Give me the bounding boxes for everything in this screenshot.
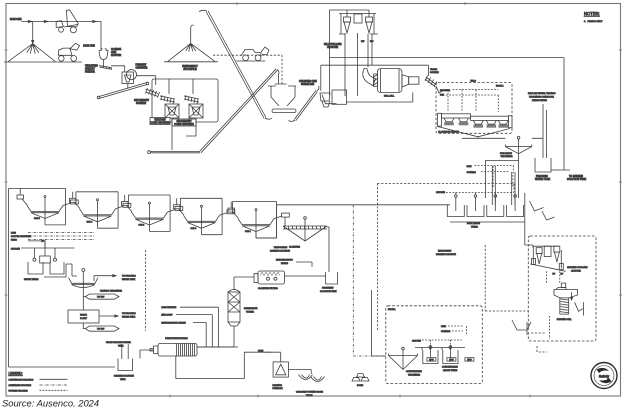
svg-text:FROTHER: FROTHER [440,90,451,92]
svg-text:SOLUTION TANK: SOLUTION TANK [567,178,586,181]
svg-text:TO TSF: TO TSF [97,328,105,330]
svg-text:OXYGEN: OXYGEN [11,248,20,250]
svg-text:CYANIDE: CYANIDE [441,330,451,333]
svg-text:CLUSTER: CLUSTER [327,46,338,49]
svg-text:TAILINGS THICKENER: TAILINGS THICKENER [100,290,122,293]
svg-text:Safety: Safety [599,375,609,379]
svg-text:THICKENER: THICKENER [408,375,421,377]
svg-text:TOWER: TOWER [246,312,254,314]
svg-text:BARREN SOLUTION: BARREN SOLUTION [436,253,456,256]
svg-text:DIATOMACEOUS EARTH: DIATOMACEOUS EARTH [161,321,186,324]
svg-text:1. PHASE 2 ONLY: 1. PHASE 2 ONLY [584,20,603,23]
svg-text:LIME: LIME [441,326,446,328]
svg-text:ROM ORE: ROM ORE [10,18,22,21]
svg-text:TABLE: TABLE [306,394,313,397]
svg-text:SCREEN: SCREEN [136,102,146,105]
svg-text:Source: Ausenco, 2024: Source: Ausenco, 2024 [2,398,99,407]
svg-text:TAILS: TAILS [470,80,476,83]
svg-text:PLANT: PLANT [80,317,87,320]
svg-text:HOPPER: HOPPER [111,54,121,57]
svg-text:BARRING: BARRING [273,384,283,387]
svg-text:PREGNANT: PREGNANT [322,287,334,290]
svg-text:THICKENER: THICKENER [501,156,514,158]
svg-text:OXYGEN: OXYGEN [412,341,421,343]
svg-text:BARREN SOLUTION: BARREN SOLUTION [270,250,290,253]
svg-text:FEEDER: FEEDER [85,71,95,74]
svg-text:REGRIND CYCLONE: REGRIND CYCLONE [567,267,588,269]
svg-text:HIGH GRADE: HIGH GRADE [274,246,288,249]
svg-text:FRESH WATER: FRESH WATER [532,99,547,102]
svg-text:WATER TANK: WATER TANK [535,178,551,181]
svg-text:LIME: LIME [467,166,472,168]
svg-text:CONCENTRATE: CONCENTRATE [442,366,458,369]
svg-text:EARTH: EARTH [281,262,289,265]
svg-text:FLOTATION CIRCUIT: FLOTATION CIRCUIT [438,130,459,133]
svg-text:DIATOMACEOUS: DIATOMACEOUS [276,259,293,262]
svg-text:FROM PROCESS WATER: FROM PROCESS WATER [106,341,131,344]
svg-text:CYANIDE: CYANIDE [467,171,477,174]
svg-text:BALL MILL: BALL MILL [384,95,395,98]
svg-text:ZINC DUST: ZINC DUST [161,315,173,317]
svg-text:FUTURE PROCESS: FUTURE PROCESS [9,391,29,393]
svg-text:BULK LEACH: BULK LEACH [467,222,480,225]
svg-text:OXYGEN: OXYGEN [436,192,445,194]
svg-text:TANK: TANK [118,345,124,348]
svg-text:PRECIPITATE FILTERS: PRECIPITATE FILTERS [165,337,188,340]
svg-text:BARREN SOLUTION: BARREN SOLUTION [114,375,134,378]
svg-text:TANK: TANK [120,378,126,381]
svg-text:PASTE: PASTE [80,314,87,317]
svg-text:CRUSHER: CRUSHER [136,67,148,70]
svg-text:PRE-LEACH: PRE-LEACH [500,152,512,155]
svg-text:FURNACE: FURNACE [273,387,284,390]
svg-text:NOTES:: NOTES: [584,11,600,16]
svg-text:CLARIFIER FILTERS: CLARIFIER FILTERS [258,287,278,290]
svg-text:TO PROCESS: TO PROCESS [122,276,136,278]
svg-text:CCD 5: CCD 5 [34,218,40,220]
svg-text:PAX: PAX [440,94,445,97]
svg-text:ALTERNATE PROCESS: ALTERNATE PROCESS [9,384,32,387]
svg-text:LEACH TANKS: LEACH TANKS [443,369,458,372]
svg-text:TRASH: TRASH [430,68,438,71]
svg-text:THICKENER OVERFLOW,: THICKENER OVERFLOW, [529,97,554,99]
svg-text:LEAD NITRATE: LEAD NITRATE [161,306,176,309]
svg-text:CLUSTER: CLUSTER [571,270,581,272]
svg-text:REGRIND MILL: REGRIND MILL [557,319,573,321]
svg-text:CCD 2: CCD 2 [191,228,197,230]
svg-text:CONE CRUSHER: CONE CRUSHER [174,123,194,126]
svg-text:MPU: MPU [429,360,434,362]
svg-text:TO PROCESS: TO PROCESS [122,313,136,315]
svg-text:LIME: LIME [11,233,16,235]
svg-text:CCD 1: CCD 1 [245,231,251,233]
svg-text:CLARIFIER: CLARIFIER [289,246,300,249]
svg-text:MPU: MPU [449,360,454,362]
svg-text:CASCADE POURING DORE: CASCADE POURING DORE [296,391,324,394]
svg-text:TANKS: TANKS [471,226,478,229]
svg-text:CONCENTRATE: CONCENTRATE [406,370,422,373]
svg-text:DEAERATION: DEAERATION [244,307,258,310]
svg-text:NOTE 1: NOTE 1 [496,85,504,87]
svg-text:STOCKPILE: STOCKPILE [183,68,197,71]
svg-text:CCD 3: CCD 3 [139,225,145,227]
svg-text:SCREEN: SCREEN [430,72,439,74]
svg-text:NOTE 1: NOTE 1 [388,309,396,311]
svg-text:CCD 4: CCD 4 [87,221,93,223]
svg-text:SURGE BIN: SURGE BIN [301,83,314,86]
svg-text:FLUX: FLUX [258,351,264,353]
svg-text:LEGEND:: LEGEND: [9,372,23,376]
svg-text:CONTINUOUS PROCESS: CONTINUOUS PROCESS [9,380,34,382]
svg-text:SOLUTION TANK: SOLUTION TANK [320,290,337,293]
svg-text:CONE CRUSHER: CONE CRUSHER [150,122,170,125]
svg-text:MPU: MPU [467,360,472,362]
svg-text:HIGH GRADE: HIGH GRADE [438,250,452,253]
svg-text:RECLAIM WATER, TAILINGS: RECLAIM WATER, TAILINGS [528,92,556,95]
svg-text:DETOX TANKS: DETOX TANKS [24,278,39,281]
svg-text:TO TSF: TO TSF [97,296,105,298]
svg-text:WATER TANK: WATER TANK [122,315,136,318]
svg-text:SMBS: SMBS [11,239,18,241]
svg-text:WATER TANK: WATER TANK [122,278,136,281]
svg-text:ROM ORE: ROM ORE [83,45,95,48]
svg-text:DORE: DORE [357,385,364,387]
